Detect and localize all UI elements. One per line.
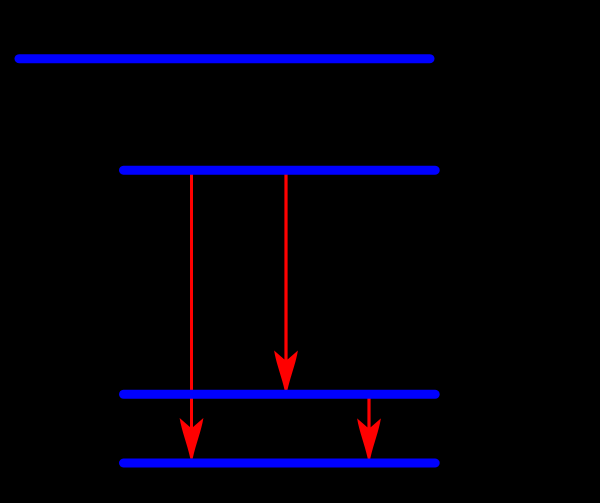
transition arrow 2 (level 2 down to level 3): shaft bbox=[274, 170, 298, 391]
energy level 1 (top) bbox=[19, 54, 430, 63]
transition arrow 1 (level 2 down to level 4, crosses level 3): shaft bbox=[180, 170, 204, 458]
energy level 2 bbox=[124, 166, 436, 175]
transition arrow 3: arrowhead bbox=[357, 418, 381, 458]
energy level 3 bbox=[124, 390, 436, 399]
transition arrow 3 (level 3 down to level 4): shaft bbox=[357, 394, 381, 459]
energy level 4 (bottom) bbox=[124, 459, 436, 468]
transition arrow 1: arrowhead bbox=[180, 418, 204, 458]
transition arrow 2: arrowhead bbox=[274, 351, 298, 391]
